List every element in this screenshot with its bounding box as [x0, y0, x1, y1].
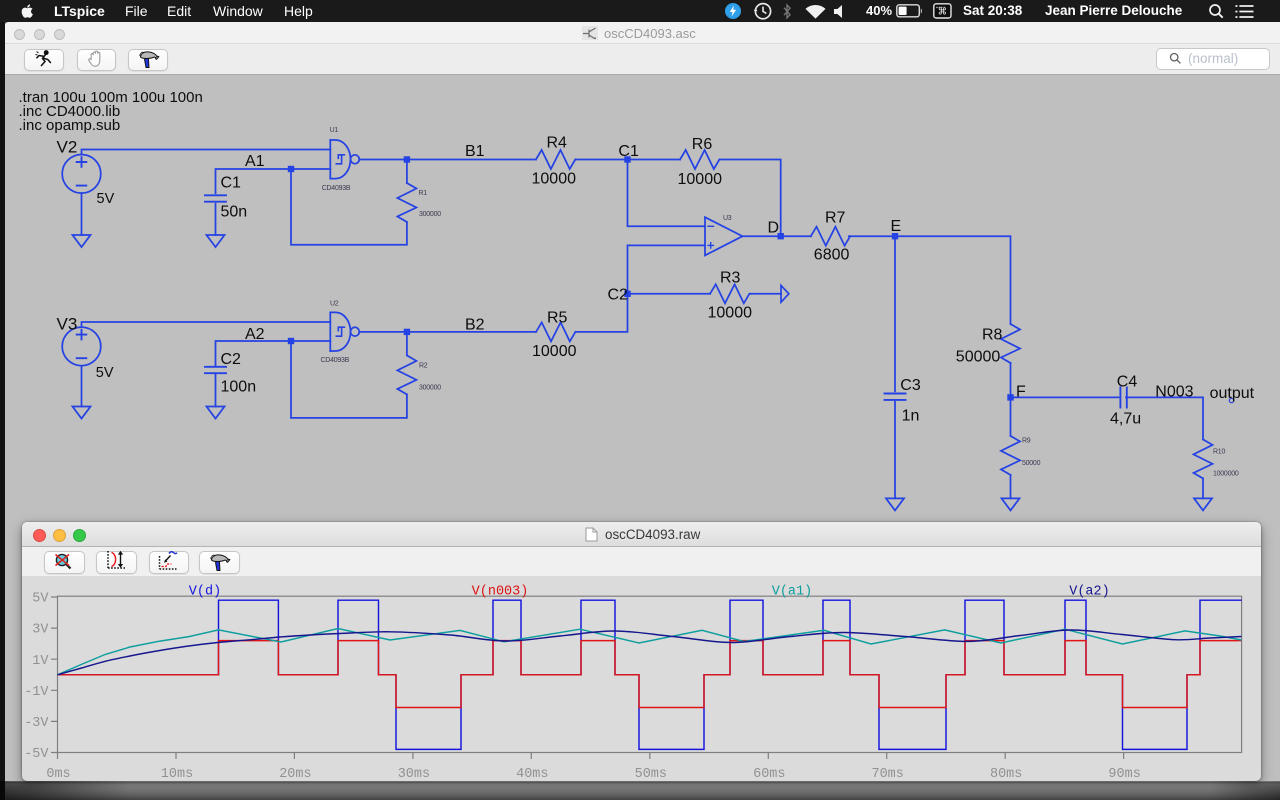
svg-text:⌘: ⌘	[938, 7, 948, 18]
